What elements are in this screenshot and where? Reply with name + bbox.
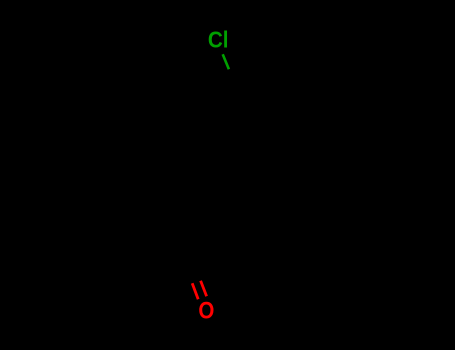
double bond C=O line 2 (201, 281, 207, 297)
bond Cl-C (green half) (223, 54, 229, 69)
svg-text:Cl: Cl (208, 27, 229, 53)
double bond C=O line 1 (192, 283, 198, 299)
svg-text:O: O (198, 297, 214, 324)
